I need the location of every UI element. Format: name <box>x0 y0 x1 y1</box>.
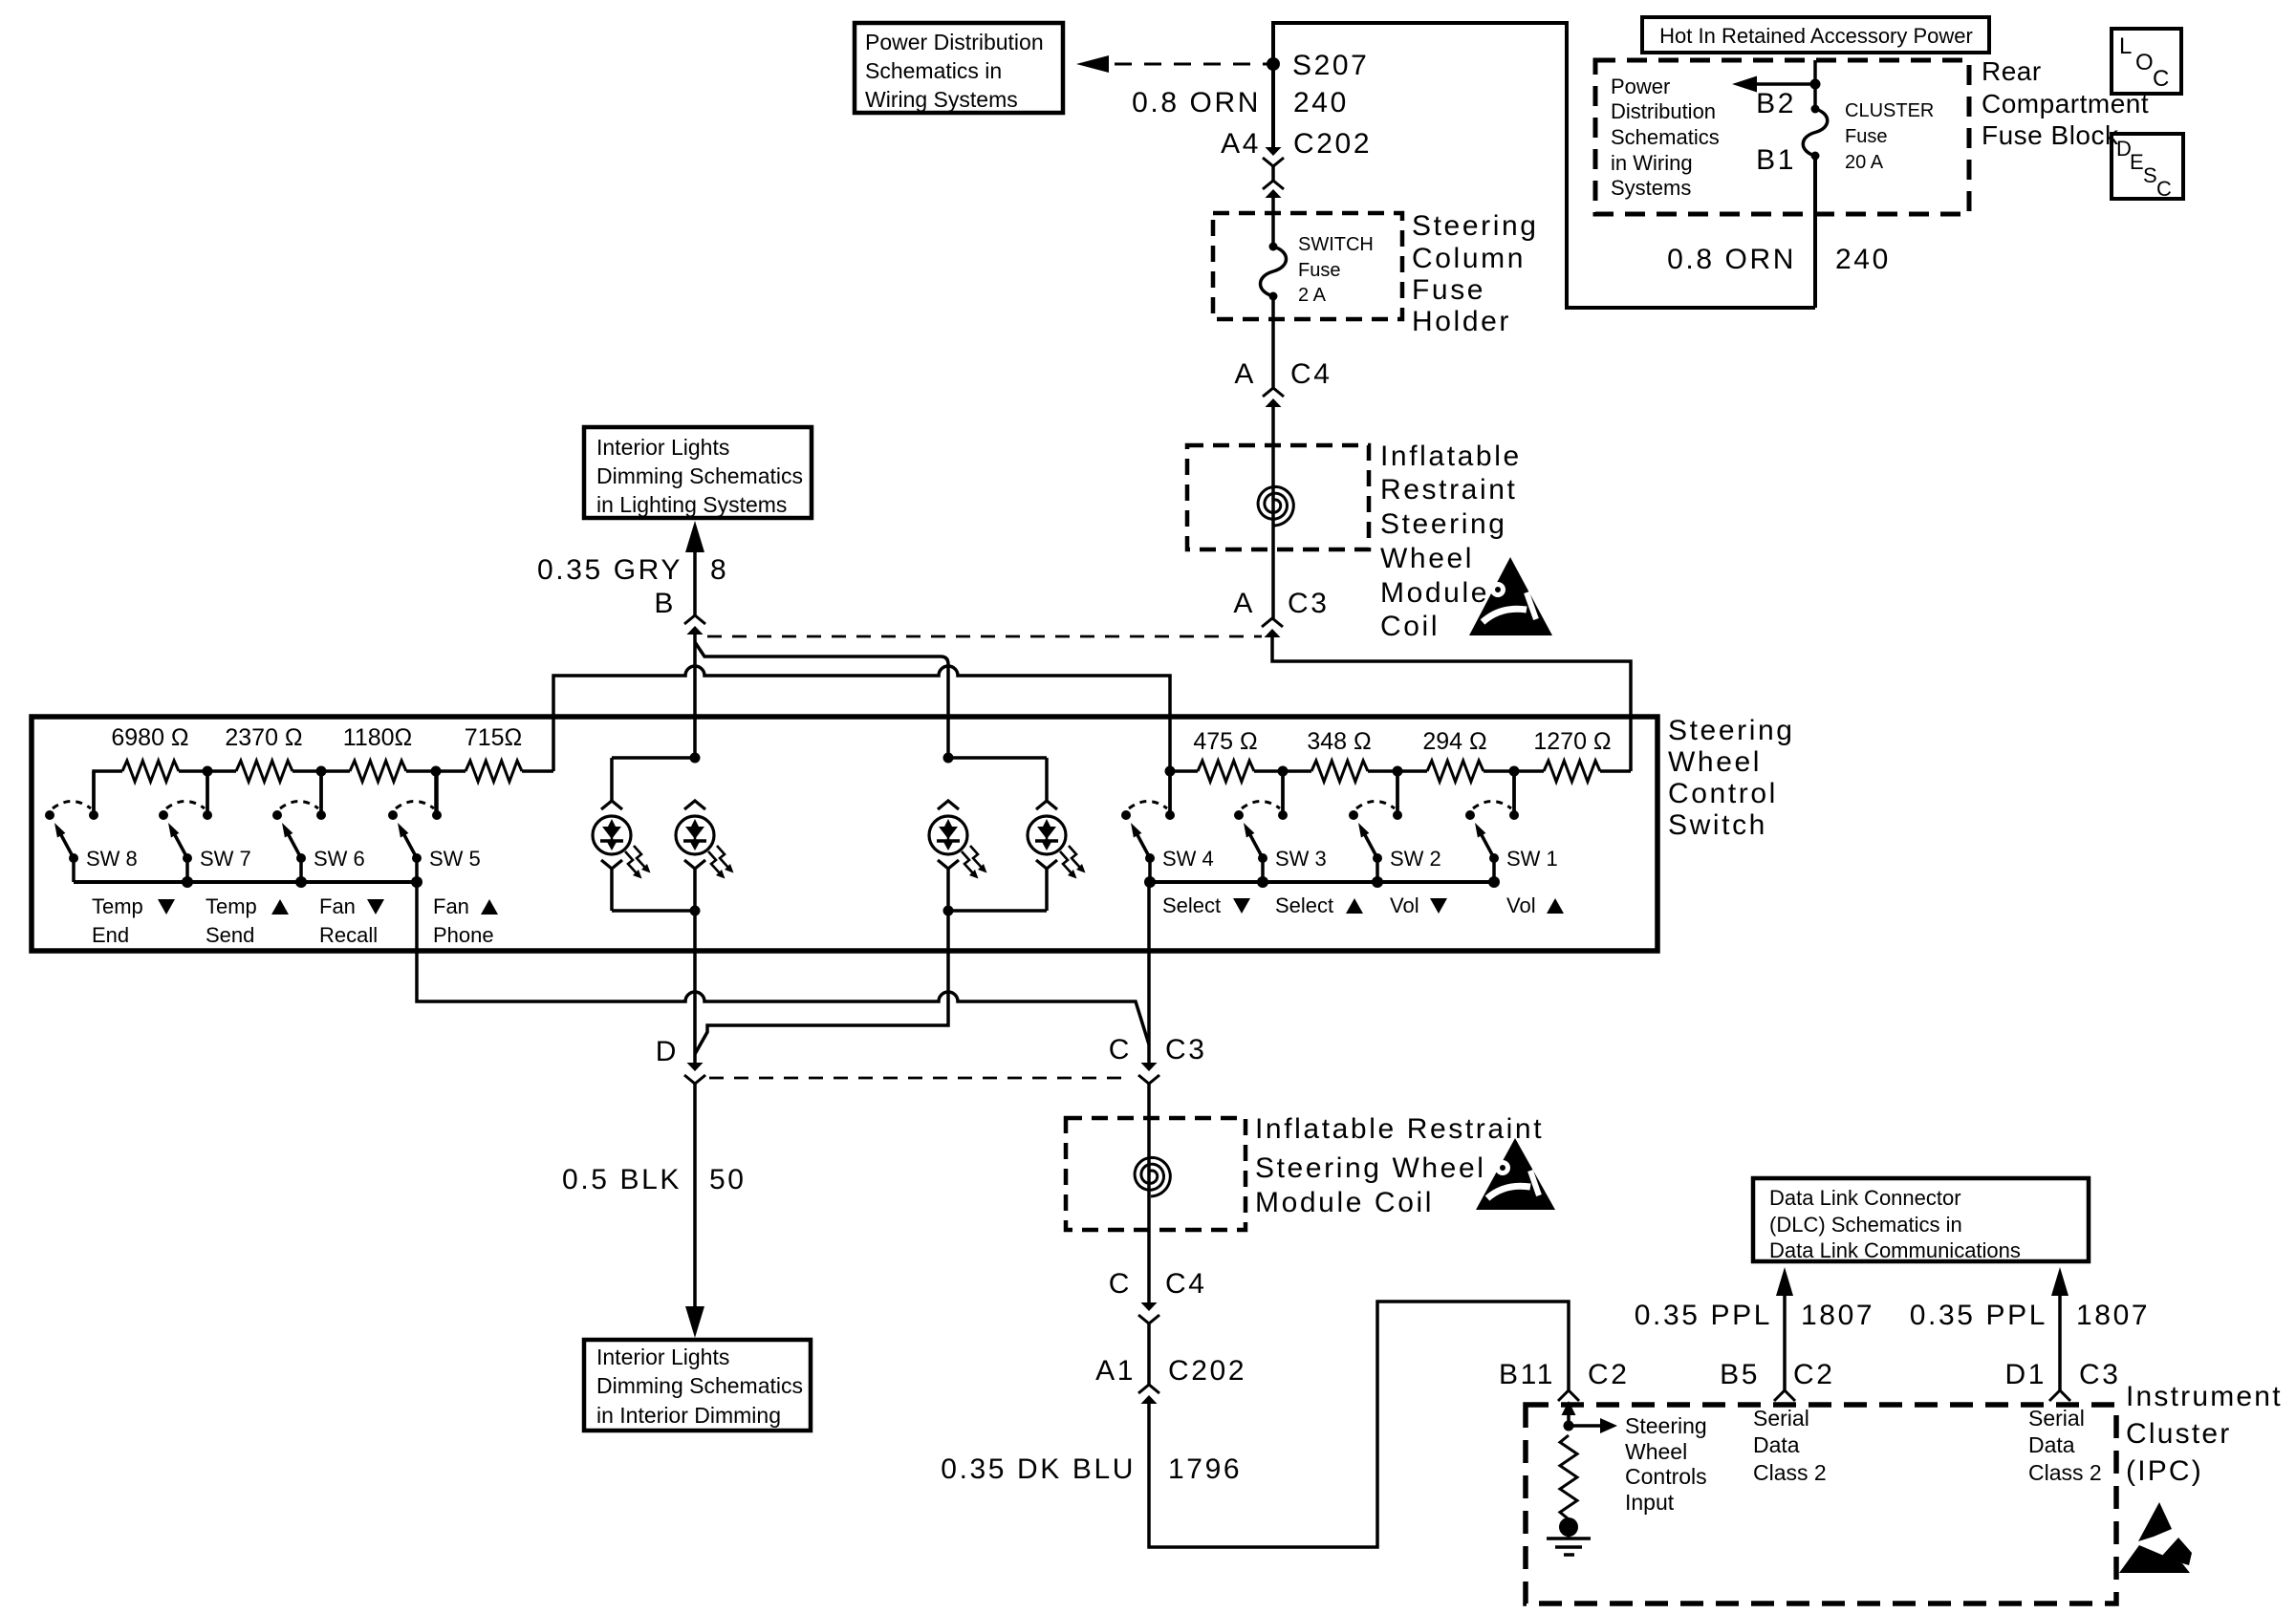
svg-text:A1: A1 <box>1095 1355 1136 1387</box>
connector pin B11 C2 <box>1499 1359 1630 1401</box>
svg-text:Schematics in: Schematics in <box>865 58 1002 83</box>
wire: LED pair B down joining D connector <box>695 911 948 1054</box>
svg-text:Select: Select <box>1162 893 1221 917</box>
IPC internal input node with arrows <box>1562 1401 1618 1433</box>
svg-text:1180Ω: 1180Ω <box>343 724 412 751</box>
svg-text:Instrument: Instrument <box>2126 1381 2283 1412</box>
svg-text:Holder: Holder <box>1412 306 1511 337</box>
svg-text:Power Distribution: Power Distribution <box>865 30 1044 54</box>
reference box: Interior Lights Dimming Schematics in Lighting Systems <box>584 427 812 518</box>
coil spiral (lower) <box>1135 1157 1170 1196</box>
label Power Distribution Schematics in Wiring Systems (inside fuse block) <box>1611 75 1720 200</box>
svg-text:2 A: 2 A <box>1298 285 1327 306</box>
svg-text:SW 2: SW 2 <box>1390 847 1441 871</box>
svg-text:C2: C2 <box>1588 1359 1630 1390</box>
connector pin D <box>656 1036 705 1084</box>
svg-text:0.35 PPL: 0.35 PPL <box>1635 1300 1772 1331</box>
svg-text:Steering: Steering <box>1412 210 1539 242</box>
wire: B1 down to corner <box>1813 156 1817 308</box>
connector pin D1 C3 <box>2004 1359 2120 1401</box>
dashed box: Inflatable Restraint Steering Wheel Module Coil (lower) <box>1066 1118 1245 1230</box>
svg-text:Cluster: Cluster <box>2126 1418 2231 1450</box>
wire label 0.5 BLK 50 <box>562 1164 747 1195</box>
svg-text:B2: B2 <box>1756 88 1796 119</box>
svg-text:C4: C4 <box>1165 1268 1207 1300</box>
svg-text:CLUSTER: CLUSTER <box>1845 100 1934 121</box>
svg-text:Control: Control <box>1668 778 1778 809</box>
svg-text:B11: B11 <box>1499 1359 1555 1390</box>
dashed box: Rear Compartment Fuse Block <box>1595 60 1969 214</box>
svg-text:Hot In Retained Accessory Powe: Hot In Retained Accessory Power <box>1659 24 1973 48</box>
svg-text:Fan: Fan <box>433 894 469 918</box>
connector pin B <box>654 588 705 635</box>
svg-text:SW 4: SW 4 <box>1162 847 1214 871</box>
svg-text:C: C <box>1109 1034 1132 1065</box>
resistor 2370 ohm <box>225 724 302 782</box>
dashed box: Inflatable Restraint Steering Wheel Module Coil (upper) <box>1187 445 1369 549</box>
fuse SWITCH Fuse 2 A <box>1261 234 1374 306</box>
fuse CLUSTER Fuse 20 A <box>1756 88 1934 176</box>
wire: LED pair A down to D connector <box>693 911 697 1063</box>
resistor chain row 2 wire <box>1170 769 1631 773</box>
connector C3 pin C (lower) <box>1109 1034 1207 1084</box>
svg-text:Steering: Steering <box>1668 715 1795 746</box>
arrow wire serial data to DLC (left) <box>1776 1267 1793 1390</box>
node: 1180/715 junction <box>431 766 442 816</box>
resistor 348 ohm <box>1307 728 1371 782</box>
dashed arrow wire to Power Distribution box <box>1076 55 1267 73</box>
label Inflatable Restraint Steering Wheel Module Coil (upper) <box>1380 441 1522 642</box>
switch SW1 <box>1465 771 1519 882</box>
label Serial Data Class 2 (left) <box>1753 1406 1827 1485</box>
wire: B connector branch to LED group B (line A) <box>695 642 948 758</box>
wire: A4 connector to switch fuse <box>1271 198 1275 247</box>
resistor 6980 ohm <box>111 724 188 782</box>
wire: fuse to connector C4 <box>1271 296 1275 388</box>
svg-text:Vol: Vol <box>1506 893 1536 917</box>
svg-text:B5: B5 <box>1720 1359 1760 1390</box>
dashed wire: connector link D to C C3 <box>709 1077 1132 1080</box>
switch function labels row 1 <box>92 894 498 947</box>
svg-text:50: 50 <box>709 1164 747 1195</box>
connector pin B5 C2 <box>1720 1359 1834 1401</box>
LED indicator B1 <box>938 801 959 809</box>
svg-text:Fan: Fan <box>319 894 356 918</box>
reference box: Interior Lights Dimming Schematics in Interior Dimming <box>584 1340 811 1431</box>
svg-text:C: C <box>1109 1268 1132 1300</box>
label Steering Wheel Control Switch <box>1668 715 1795 841</box>
switch function labels row 2 <box>1162 893 1564 917</box>
svg-text:C3: C3 <box>2079 1359 2121 1390</box>
node: 6980/2370 junction <box>203 766 213 816</box>
svg-text:Recall: Recall <box>319 923 378 947</box>
svg-text:715Ω: 715Ω <box>465 724 522 751</box>
svg-text:Wheel: Wheel <box>1380 543 1474 574</box>
svg-text:Inflatable: Inflatable <box>1380 441 1522 472</box>
airbag warning icon (upper) <box>1469 557 1552 635</box>
svg-text:C202: C202 <box>1293 128 1372 160</box>
arrow to power distribution schematics <box>1732 76 1815 93</box>
connector C202 pin A1 <box>1095 1355 1246 1404</box>
svg-text:240: 240 <box>1293 87 1349 118</box>
node: 294/1270 junction <box>1509 766 1520 816</box>
IPC internal ground <box>1547 1517 1591 1555</box>
LED indicator A2 <box>684 801 705 809</box>
switch SW8 <box>45 771 98 882</box>
svg-text:SW 7: SW 7 <box>200 847 251 871</box>
svg-text:SW 3: SW 3 <box>1275 847 1327 871</box>
svg-text:0.35 GRY: 0.35 GRY <box>537 554 682 586</box>
wire: top power feed path from fuse block B1 to S207 <box>1273 23 1815 308</box>
resistor 294 ohm <box>1422 728 1486 782</box>
connector C4 pin C <box>1109 1268 1207 1323</box>
svg-text:Data: Data <box>2028 1432 2075 1457</box>
svg-text:294 Ω: 294 Ω <box>1422 728 1486 755</box>
dashed box: Instrument Cluster IPC <box>1526 1405 2116 1603</box>
svg-text:Fuse: Fuse <box>1845 126 1887 147</box>
IPC pull-up resistor <box>1560 1435 1577 1519</box>
svg-text:Temp: Temp <box>206 894 257 918</box>
svg-text:1807: 1807 <box>2076 1300 2150 1331</box>
svg-text:in Lighting Systems: in Lighting Systems <box>596 492 787 517</box>
wire label 0.8 ORN 240 (left circuit) <box>1132 87 1349 118</box>
splice S207 <box>1267 50 1369 81</box>
svg-text:A: A <box>1233 588 1255 619</box>
wire: switch bus row 2 down to C connector <box>1147 882 1151 1063</box>
wire label 0.35 DK BLU 1796 <box>941 1453 1242 1485</box>
svg-text:Class 2: Class 2 <box>1753 1460 1827 1485</box>
svg-text:Restraint: Restraint <box>1380 474 1517 506</box>
label Instrument Cluster (IPC) <box>2126 1381 2283 1487</box>
switch SW3 <box>1234 771 1288 882</box>
label Steering Column Fuse Holder <box>1412 210 1539 337</box>
svg-text:Inflatable Restraint: Inflatable Restraint <box>1255 1113 1544 1145</box>
svg-text:Switch: Switch <box>1668 809 1767 841</box>
ESD sensitive device icon <box>2119 1502 2192 1573</box>
svg-text:Interior Lights: Interior Lights <box>596 1345 729 1369</box>
svg-text:2370 Ω: 2370 Ω <box>225 724 302 751</box>
svg-text:Phone: Phone <box>433 923 494 947</box>
node: 2370/1180 junction <box>316 766 327 816</box>
svg-text:SWITCH: SWITCH <box>1298 234 1374 255</box>
LED pair A bottom rail <box>612 869 701 916</box>
svg-text:O: O <box>2135 50 2154 75</box>
airbag warning icon (lower) <box>1476 1138 1555 1210</box>
node: 348/294 junction <box>1393 766 1403 816</box>
svg-text:Module: Module <box>1380 577 1489 609</box>
svg-text:Fuse: Fuse <box>1298 260 1340 281</box>
bus wire row 2 switches common <box>1144 876 1500 888</box>
svg-text:L: L <box>2119 33 2132 59</box>
svg-text:Interior Lights: Interior Lights <box>596 435 729 460</box>
LOC box <box>2112 29 2181 94</box>
svg-text:1796: 1796 <box>1168 1453 1242 1485</box>
node: chain 2 left end <box>1165 766 1176 816</box>
svg-text:(DLC) Schematics in: (DLC) Schematics in <box>1769 1213 1962 1237</box>
svg-text:Steering: Steering <box>1625 1413 1707 1438</box>
svg-text:SW 6: SW 6 <box>314 847 365 871</box>
reference box: Data Link Connector (DLC) Schematics in Data Link Communications <box>1753 1178 2089 1262</box>
svg-text:C2: C2 <box>1793 1359 1835 1390</box>
svg-text:C: C <box>2153 66 2169 92</box>
svg-text:Fuse: Fuse <box>1412 274 1485 306</box>
svg-text:C202: C202 <box>1168 1355 1246 1387</box>
switch SW7 <box>159 771 212 882</box>
wire: C connector down through lower coil <box>1147 1084 1151 1302</box>
wire: B connector through switch box to LED group A <box>693 635 697 758</box>
wire label 0.35 PPL 1807 (left) <box>1635 1300 1874 1331</box>
svg-text:Systems: Systems <box>1611 176 1691 200</box>
svg-text:0.8 ORN: 0.8 ORN <box>1132 87 1261 118</box>
label Steering Wheel Controls Input <box>1625 1413 1707 1515</box>
svg-text:6980 Ω: 6980 Ω <box>111 724 188 751</box>
svg-text:Wheel: Wheel <box>1625 1439 1687 1464</box>
wire: C4 to coil <box>1271 407 1275 618</box>
DESC box <box>2112 134 2183 201</box>
coil spiral (upper) <box>1258 486 1293 526</box>
wire: A1 C202 to instrument cluster B11 <box>1149 1302 1569 1547</box>
svg-text:1807: 1807 <box>1801 1300 1874 1331</box>
svg-text:0.5 BLK: 0.5 BLK <box>562 1164 682 1195</box>
svg-text:Rear: Rear <box>1982 56 2042 86</box>
svg-text:475 Ω: 475 Ω <box>1193 728 1257 755</box>
wire: switch bus row 1 down to C connector (crossover) <box>417 882 1149 1044</box>
svg-text:(IPC): (IPC) <box>2126 1455 2203 1487</box>
label Serial Data Class 2 (right) <box>2028 1406 2102 1485</box>
resistor 1180 ohm <box>343 724 412 782</box>
box: Steering Wheel Control Switch <box>32 717 1657 951</box>
wire label 0.35 PPL 1807 (right) <box>1910 1300 2150 1331</box>
svg-text:Data Link Connector: Data Link Connector <box>1769 1186 1961 1210</box>
svg-text:B: B <box>654 588 676 619</box>
switch SW2 <box>1349 771 1402 882</box>
LED pair B top rail <box>943 753 1048 802</box>
svg-text:0.8 ORN: 0.8 ORN <box>1667 244 1796 275</box>
svg-text:B1: B1 <box>1756 144 1796 176</box>
svg-text:C4: C4 <box>1290 358 1332 390</box>
connector C4 pin A <box>1234 358 1332 407</box>
svg-text:Module Coil: Module Coil <box>1255 1187 1434 1218</box>
svg-text:Coil: Coil <box>1380 611 1440 642</box>
svg-text:Vol: Vol <box>1390 893 1419 917</box>
svg-text:E: E <box>2130 150 2144 174</box>
svg-text:Wheel: Wheel <box>1668 746 1762 778</box>
svg-text:Schematics: Schematics <box>1611 125 1720 149</box>
wire label 0.8 ORN 240 (right circuit) <box>1667 244 1891 275</box>
wire: C4 to C202 <box>1147 1323 1151 1385</box>
switch SW6 <box>272 771 326 882</box>
svg-text:Column: Column <box>1412 243 1526 274</box>
svg-text:0.35 DK BLU: 0.35 DK BLU <box>941 1453 1136 1485</box>
LED pair A top rail <box>612 753 701 802</box>
wire label 0.35 GRY 8 <box>537 554 728 586</box>
svg-text:Send: Send <box>206 923 254 947</box>
svg-text:A4: A4 <box>1221 128 1261 160</box>
resistor 475 ohm <box>1193 728 1257 782</box>
bus wire row 1 switches common <box>74 876 422 888</box>
wire: hot feed into cluster fuse <box>1810 60 1821 109</box>
svg-text:Steering Wheel: Steering Wheel <box>1255 1152 1486 1184</box>
svg-text:SW 1: SW 1 <box>1506 847 1558 871</box>
svg-text:Class 2: Class 2 <box>2028 1460 2102 1485</box>
svg-text:Fuse Block: Fuse Block <box>1982 120 2119 150</box>
resistor 1270 ohm <box>1533 728 1611 782</box>
LED pair B bottom rail <box>943 869 1048 916</box>
label Rear Compartment Fuse Block <box>1982 56 2149 150</box>
dashed box: Steering Column Fuse Holder <box>1213 213 1402 319</box>
connector C3 pin A <box>1233 588 1329 637</box>
wire: A C3 down to switch box resistor network <box>1272 637 1631 771</box>
svg-text:A: A <box>1234 358 1256 390</box>
svg-text:D: D <box>656 1036 679 1067</box>
wire: resistor chain 1 to resistor chain 2 bypass (line B) <box>553 666 1170 771</box>
svg-text:348 Ω: 348 Ω <box>1307 728 1371 755</box>
svg-text:Steering: Steering <box>1380 508 1507 540</box>
svg-text:in Interior Dimming: in Interior Dimming <box>596 1403 781 1428</box>
switch SW5 <box>388 771 442 882</box>
svg-text:Serial: Serial <box>2028 1406 2085 1431</box>
svg-text:Serial: Serial <box>1753 1406 1809 1431</box>
svg-text:SW 8: SW 8 <box>86 847 138 871</box>
svg-text:0.35 PPL: 0.35 PPL <box>1910 1300 2047 1331</box>
svg-text:S207: S207 <box>1292 50 1369 81</box>
wire: D connector down to interior dimming reference <box>693 1084 697 1311</box>
label Inflatable Restraint Steering Wheel Module Coil (lower) <box>1255 1113 1544 1218</box>
resistor 715 ohm <box>465 724 522 782</box>
connector C202 pin A4 (inline pair) <box>1221 128 1372 198</box>
dashed wire: connector link B to A C3 <box>707 635 1262 638</box>
svg-text:Controls: Controls <box>1625 1464 1707 1489</box>
arrow wire into interior lights box <box>685 521 704 615</box>
reference box: Power Distribution Schematics in Wiring Systems <box>855 23 1063 113</box>
svg-text:C: C <box>2156 177 2172 201</box>
reference box: Hot In Retained Accessory Power <box>1642 17 1989 53</box>
svg-text:240: 240 <box>1835 244 1891 275</box>
LED indicator A1 <box>601 801 622 809</box>
svg-text:20 A: 20 A <box>1845 152 1884 173</box>
svg-text:Dimming Schematics: Dimming Schematics <box>596 1373 803 1398</box>
svg-text:S: S <box>2143 163 2157 187</box>
svg-text:Dimming Schematics: Dimming Schematics <box>596 463 803 488</box>
arrow wire into interior dimming box <box>685 1306 704 1338</box>
svg-text:Power: Power <box>1611 75 1670 98</box>
svg-text:Select: Select <box>1275 893 1333 917</box>
resistor chain row 1 wire <box>94 771 553 815</box>
switch SW4 <box>1121 771 1175 882</box>
svg-text:Input: Input <box>1625 1490 1675 1515</box>
svg-text:Data: Data <box>1753 1432 1800 1457</box>
svg-text:1270 Ω: 1270 Ω <box>1533 728 1611 755</box>
svg-text:8: 8 <box>710 554 728 586</box>
node: 475/348 junction <box>1278 766 1289 816</box>
svg-text:D1: D1 <box>2004 1359 2047 1390</box>
svg-text:C3: C3 <box>1165 1034 1207 1065</box>
svg-text:in Wiring: in Wiring <box>1611 151 1693 175</box>
svg-text:Distribution: Distribution <box>1611 99 1716 123</box>
svg-text:End: End <box>92 923 129 947</box>
svg-text:SW 5: SW 5 <box>429 847 481 871</box>
svg-text:Wiring Systems: Wiring Systems <box>865 87 1018 112</box>
svg-text:C3: C3 <box>1288 588 1330 619</box>
svg-text:Temp: Temp <box>92 894 143 918</box>
arrow wire serial data to DLC (right) <box>2051 1267 2069 1390</box>
LED indicator B2 <box>1036 801 1057 809</box>
svg-text:Data Link Communications: Data Link Communications <box>1769 1238 2021 1262</box>
